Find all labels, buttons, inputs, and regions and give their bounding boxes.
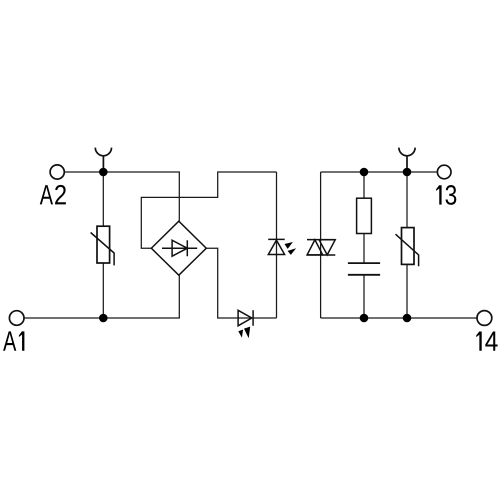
photo triac U1 up triangle (307, 240, 323, 255)
terminal circle A2 (50, 165, 64, 179)
LED D3 (indicator) triangle (238, 310, 252, 326)
resistor R1 body (357, 198, 372, 233)
varistor RU2 body (402, 228, 415, 265)
label A2 digit 2 (55, 185, 66, 205)
photo triac U1 upper bar (307, 239, 335, 241)
label A1 letter A (3, 331, 16, 350)
wire varistor RU1 bottom lead (102, 263, 104, 318)
wire A2 terminal to top rail with corner down to bridge top (65, 172, 180, 221)
LED D3 emission arrow 1 (238, 330, 243, 338)
label 14 digit 1 (476, 332, 482, 351)
wire bottom loop through LED D3 back to bridge right vertex (206, 248, 276, 318)
wire resistor R1 top lead (363, 172, 365, 198)
plug contact symbol over node A2 (95, 148, 111, 172)
LED D2 (opto emitter, cathode bar) (268, 238, 285, 240)
capacitor C1 plates (348, 263, 380, 275)
wire output bottom rail to terminal 14 (321, 317, 477, 319)
wire output block left edge through triac U1 (320, 172, 322, 318)
LED D2 triangle (268, 240, 284, 254)
wire resistor R1 to capacitor C1 (363, 234, 365, 264)
bridge rectifier BR1 diamond (151, 221, 206, 275)
wire A1 terminal to bottom rail with corner up to bridge bottom (25, 275, 180, 318)
label A1 digit 1 (19, 331, 25, 350)
LED D2 emission arrow 2 (288, 248, 297, 255)
label A2 letter A (40, 185, 53, 204)
wire LED D2 vertical branch (276, 172, 278, 318)
varistor RU1 diagonal stroke (91, 233, 115, 266)
junction node A2/varistor (99, 168, 108, 177)
junction node bottom rail / capacitor C1 (360, 314, 369, 323)
varistor RU1 body (97, 226, 110, 263)
LED D2 emission arrow 1 (285, 242, 293, 249)
terminal circle A1 (9, 311, 24, 326)
LED D3 cathode bar (252, 310, 254, 326)
wire bridge left vertex up and over to LED D2 top (141, 172, 276, 248)
wire output top rail to terminal 13 (321, 171, 437, 173)
junction node A1/varistor (99, 314, 108, 323)
junction node top rail / varistor RU2 (403, 168, 412, 177)
junction node top rail / resistor R1 (360, 168, 369, 177)
plug contact symbol over node 13/14 rail (399, 148, 415, 172)
terminal circle 13 (437, 165, 451, 179)
junction node bottom rail / varistor RU2 (403, 314, 412, 323)
label 13 digit 3 (445, 185, 456, 205)
photo triac U1 down triangle (319, 240, 335, 255)
label 14 digit 4 (485, 332, 497, 351)
bridge rectifier BR1 internal diode (162, 240, 197, 256)
wire varistor RU2 top lead (406, 172, 408, 228)
wire varistor RU1 top lead (102, 172, 104, 226)
wire varistor RU2 bottom lead (406, 264, 408, 318)
photo triac U1 lower bar (307, 254, 335, 256)
terminal circle 14 (477, 311, 492, 326)
wire capacitor C1 bottom lead (363, 275, 365, 318)
LED D3 emission arrow 2 (244, 327, 250, 339)
label 13 digit 1 (436, 185, 442, 204)
varistor RU2 diagonal stroke (396, 234, 419, 266)
